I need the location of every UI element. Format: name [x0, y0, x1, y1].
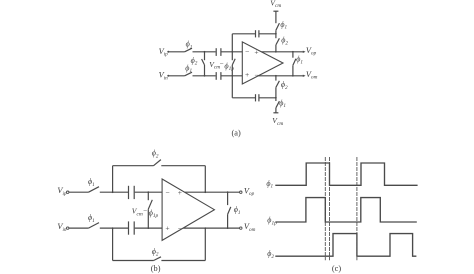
- svg-text:Vcm: Vcm: [272, 116, 283, 127]
- svg-text:Vip: Vip: [57, 186, 67, 197]
- svg-text:Vcm: Vcm: [132, 207, 143, 218]
- svg-text:+: +: [245, 70, 249, 79]
- svg-text:Vom: Vom: [306, 70, 318, 81]
- svg-text:ϕ1p: ϕ1p: [149, 208, 159, 219]
- svg-text:+: +: [254, 47, 258, 56]
- svg-text:ϕ1: ϕ1: [185, 63, 192, 74]
- svg-text:−: −: [220, 60, 224, 68]
- svg-text:Vin: Vin: [159, 71, 169, 82]
- svg-text:(a): (a): [232, 129, 241, 138]
- svg-text:Vom: Vom: [244, 222, 256, 233]
- svg-text:Vcm: Vcm: [209, 60, 220, 71]
- svg-text:−: −: [143, 207, 147, 215]
- svg-text:ϕ1: ϕ1: [279, 98, 286, 109]
- svg-text:ϕ1: ϕ1: [88, 213, 95, 224]
- svg-text:ϕ1p: ϕ1p: [267, 216, 277, 227]
- svg-text:ϕ1: ϕ1: [296, 55, 303, 66]
- svg-text:Vop: Vop: [306, 46, 317, 57]
- svg-text:ϕ2: ϕ2: [191, 56, 198, 67]
- svg-text:ϕ2: ϕ2: [152, 149, 159, 160]
- svg-text:−: −: [178, 224, 182, 233]
- svg-text:Vop: Vop: [244, 186, 255, 197]
- svg-text:ϕ1: ϕ1: [88, 177, 95, 188]
- svg-text:Vin: Vin: [57, 222, 67, 233]
- svg-text:+: +: [165, 223, 169, 232]
- svg-text:ϕ1: ϕ1: [280, 20, 287, 31]
- svg-text:(c): (c): [332, 264, 341, 273]
- svg-text:ϕ2: ϕ2: [281, 80, 288, 91]
- svg-text:−: −: [245, 47, 249, 56]
- svg-text:Vip: Vip: [159, 47, 169, 58]
- svg-text:−: −: [254, 70, 258, 79]
- svg-text:ϕ2: ϕ2: [152, 247, 159, 258]
- svg-text:(b): (b): [151, 264, 161, 273]
- svg-text:ϕ1: ϕ1: [186, 40, 193, 51]
- svg-text:−: −: [165, 188, 169, 197]
- svg-text:ϕ2: ϕ2: [267, 249, 274, 260]
- svg-text:ϕ2: ϕ2: [281, 36, 288, 47]
- svg-text:ϕ1: ϕ1: [234, 205, 241, 216]
- svg-text:+: +: [178, 188, 182, 197]
- svg-text:ϕ1: ϕ1: [266, 179, 273, 190]
- svg-text:Vcm: Vcm: [270, 0, 281, 9]
